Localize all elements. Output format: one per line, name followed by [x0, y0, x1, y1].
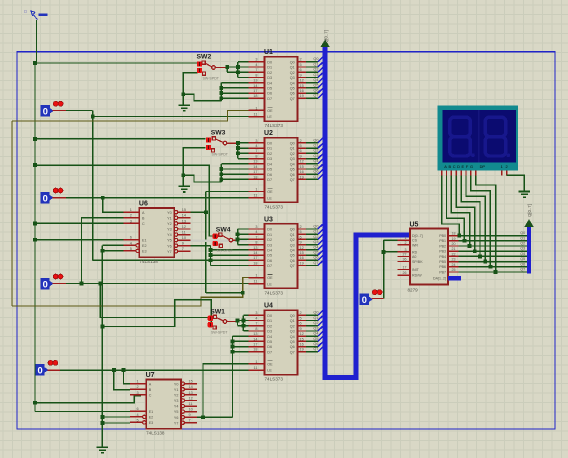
- svg-text:DP: DP: [480, 164, 486, 169]
- decoder U7 74LS138: [130, 372, 197, 436]
- svg-text:2: 2: [405, 241, 407, 245]
- svg-text:16: 16: [300, 343, 304, 347]
- logic probe P5 (logicstate 0): [360, 290, 383, 305]
- svg-text:U2: U2: [264, 130, 273, 137]
- junction at (237.6,239.4): [236, 238, 240, 242]
- svg-text:E3: E3: [142, 250, 147, 254]
- svg-text:Q0: Q0: [520, 231, 525, 235]
- switch SW1 SW-SPDT: [208, 308, 237, 334]
- svg-text:Q2: Q2: [290, 152, 295, 156]
- svg-text:Y2: Y2: [167, 222, 172, 226]
- wire tap to U1 pin LE: [93, 116, 249, 118]
- ground GND1 bottom left: [97, 447, 108, 453]
- junction display line Q4: [478, 255, 482, 259]
- svg-text:D1: D1: [267, 66, 272, 70]
- junction SW1 pole: [236, 319, 240, 323]
- junction staircase D5: [219, 86, 223, 90]
- junction at (243.4,320.5): [242, 319, 246, 323]
- svg-text:Q5: Q5: [313, 164, 318, 168]
- svg-text:3: 3: [130, 219, 132, 223]
- svg-text:Q2: Q2: [290, 324, 295, 328]
- svg-text:Q1: Q1: [313, 62, 318, 66]
- svg-text:D[0..7]: D[0..7]: [412, 234, 423, 238]
- svg-text:Q5: Q5: [290, 254, 295, 258]
- wire rail y=165 to SW4 top throw: [35, 165, 213, 236]
- svg-text:D4: D4: [267, 335, 272, 339]
- junction at (210.5,249.9): [209, 248, 213, 252]
- svg-text:6: 6: [300, 322, 302, 326]
- svg-text:Q2: Q2: [313, 235, 318, 239]
- svg-text:Q4: Q4: [290, 162, 295, 166]
- svg-text:1: 1: [255, 360, 257, 364]
- svg-text:D7: D7: [267, 350, 272, 354]
- svg-text:15: 15: [300, 337, 304, 341]
- svg-text:D7: D7: [267, 178, 272, 182]
- svg-text:D1: D1: [267, 147, 272, 151]
- svg-text:1: 1: [405, 236, 407, 240]
- svg-text:Q1: Q1: [290, 319, 295, 323]
- svg-text:19: 19: [300, 261, 304, 265]
- svg-text:11: 11: [182, 231, 186, 235]
- svg-text:12: 12: [189, 396, 193, 400]
- svg-text:SW3: SW3: [211, 130, 226, 137]
- svg-text:A0: A0: [412, 255, 416, 259]
- svg-text:D2: D2: [267, 324, 272, 328]
- svg-text:D6: D6: [267, 92, 272, 96]
- svg-text:Y7: Y7: [174, 421, 179, 425]
- wire SW3 bottom throw to ground: [183, 148, 205, 187]
- junction at (81.5,283.5): [80, 282, 84, 286]
- svg-text:8: 8: [255, 155, 257, 159]
- svg-text:6: 6: [300, 68, 302, 72]
- svg-text:Q4: Q4: [290, 81, 295, 85]
- bus pin U5 DA[1..2]: [448, 276, 461, 280]
- svg-text:D3: D3: [267, 157, 272, 161]
- svg-text:Q0: Q0: [313, 57, 318, 61]
- junction at (102.4,417): [101, 415, 105, 419]
- svg-text:Q4: Q4: [520, 252, 525, 256]
- svg-text:PB0: PB0: [439, 234, 446, 238]
- svg-text:OE: OE: [267, 109, 273, 113]
- svg-text:LE: LE: [267, 282, 272, 286]
- svg-text:8: 8: [255, 241, 257, 245]
- junction SW3 pole: [236, 141, 240, 145]
- svg-text:15: 15: [300, 251, 304, 255]
- junction at (383.6,251.9): [382, 250, 386, 254]
- svg-text:D3: D3: [267, 243, 272, 247]
- svg-text:SP/BK: SP/BK: [412, 260, 423, 264]
- svg-text:Q[0..7]: Q[0..7]: [527, 204, 532, 217]
- wire display segment lines to U5 port and bus Q: [442, 175, 527, 272]
- svg-text:Q4: Q4: [290, 335, 295, 339]
- svg-text:D3: D3: [267, 330, 272, 334]
- svg-text:Q3: Q3: [313, 326, 318, 330]
- svg-text:Q3: Q3: [520, 247, 525, 251]
- svg-text:Y0: Y0: [167, 211, 172, 215]
- svg-text:2: 2: [136, 385, 138, 389]
- svg-text:15: 15: [300, 84, 304, 88]
- svg-text:PB7: PB7: [439, 270, 446, 274]
- svg-text:8279: 8279: [408, 288, 419, 293]
- junction at (210.5,260.3): [209, 258, 213, 262]
- svg-text:19: 19: [300, 348, 304, 352]
- svg-text:Y3: Y3: [167, 228, 172, 232]
- svg-text:LE: LE: [267, 115, 272, 119]
- wire U5 CS/RD to logic probe: [384, 240, 398, 298]
- junction staircase D1: [236, 65, 240, 69]
- wire probe stub U5: [372, 298, 384, 300]
- svg-text:WR: WR: [412, 243, 418, 247]
- svg-text:D5: D5: [267, 87, 272, 91]
- svg-text:11: 11: [189, 402, 193, 406]
- svg-text:Q1: Q1: [520, 236, 525, 240]
- junction at (242.7,292.8): [241, 291, 245, 295]
- svg-text:Q1: Q1: [290, 147, 295, 151]
- svg-text:14: 14: [253, 165, 257, 169]
- bus entries Q0-Q7 with net labels: [306, 311, 323, 352]
- svg-text:2: 2: [506, 164, 508, 169]
- svg-text:9: 9: [300, 73, 302, 77]
- wire to U7 pin C: [35, 396, 141, 403]
- svg-text:Y5: Y5: [167, 239, 172, 243]
- wire to U6 pin C: [35, 222, 123, 224]
- svg-text:17: 17: [253, 343, 257, 347]
- junction at (100.4,283.5): [99, 282, 103, 286]
- svg-text:PB6: PB6: [439, 265, 446, 269]
- svg-text:D0: D0: [267, 60, 272, 64]
- svg-text:Q0: Q0: [290, 142, 295, 146]
- junction at (35,223): [33, 222, 37, 226]
- logic probe P4 (logicstate 0): [35, 360, 58, 375]
- svg-text:13: 13: [253, 246, 257, 250]
- svg-text:6: 6: [136, 407, 138, 411]
- junction at (35,403): [33, 401, 37, 405]
- svg-text:18: 18: [253, 348, 257, 352]
- svg-text:D: D: [457, 164, 460, 169]
- svg-text:Q1: Q1: [313, 144, 318, 148]
- svg-text:14: 14: [189, 385, 193, 389]
- junction at (232.5,341.4): [231, 340, 235, 344]
- svg-text:Q4: Q4: [313, 159, 318, 163]
- svg-text:8: 8: [255, 73, 257, 77]
- bus terminal arrow Q[0..7] top: [320, 39, 330, 47]
- svg-text:5: 5: [130, 247, 132, 251]
- svg-text:C: C: [453, 164, 456, 169]
- svg-text:U4: U4: [264, 303, 273, 310]
- svg-text:8: 8: [255, 327, 257, 331]
- wire SW2 bottom throw to ground: [183, 73, 197, 105]
- junction staircase D5: [219, 167, 223, 171]
- svg-text:7: 7: [255, 149, 257, 153]
- svg-text:Y0: Y0: [174, 382, 179, 386]
- svg-text:Q5: Q5: [290, 87, 295, 91]
- junction staircase D6: [219, 91, 223, 95]
- svg-text:Q2: Q2: [313, 321, 318, 325]
- svg-text:13: 13: [253, 332, 257, 336]
- svg-text:D6: D6: [267, 345, 272, 349]
- svg-text:74LS373: 74LS373: [265, 290, 284, 295]
- svg-text:Q0: Q0: [290, 228, 295, 232]
- svg-text:0: 0: [43, 193, 48, 203]
- svg-text:D0: D0: [267, 142, 272, 146]
- svg-text:2: 2: [300, 311, 302, 315]
- junction display line Q6: [489, 265, 493, 269]
- svg-text:7: 7: [255, 322, 257, 326]
- wire branch to U7 pin A: [124, 370, 131, 384]
- svg-text:E2: E2: [142, 244, 147, 248]
- junction display line Q2: [468, 244, 472, 248]
- svg-text:10: 10: [189, 408, 193, 412]
- svg-text:0: 0: [38, 366, 43, 376]
- svg-text:7: 7: [182, 247, 184, 251]
- svg-text:Y4: Y4: [167, 233, 172, 237]
- svg-text:U6: U6: [139, 201, 148, 208]
- svg-text:Q2: Q2: [290, 71, 295, 75]
- svg-text:Q5: Q5: [520, 257, 525, 261]
- svg-text:16: 16: [300, 170, 304, 174]
- svg-text:Q6: Q6: [290, 173, 295, 177]
- svg-text:Q6: Q6: [290, 92, 295, 96]
- svg-text:D4: D4: [267, 81, 272, 85]
- wire U7 Y6 to U4 data pins D4-D7: [197, 336, 249, 417]
- svg-text:Y3: Y3: [174, 399, 179, 403]
- ground GND3 under SW3: [179, 186, 190, 192]
- wire net LED4: probe to U4 LE: [60, 369, 249, 371]
- svg-text:9: 9: [300, 155, 302, 159]
- svg-text:11: 11: [254, 366, 258, 370]
- svg-text:4: 4: [136, 413, 138, 417]
- svg-text:E1: E1: [142, 238, 147, 242]
- wire SW4 bottom net to U3 data pins D4-D7: [211, 246, 249, 266]
- svg-text:PB4: PB4: [439, 255, 446, 259]
- svg-text:3: 3: [255, 58, 257, 62]
- svg-text:Q3: Q3: [313, 240, 318, 244]
- svg-text:22: 22: [452, 252, 456, 256]
- svg-text:2: 2: [130, 214, 132, 218]
- svg-text:Y4: Y4: [174, 405, 179, 409]
- svg-text:SW-SPDT: SW-SPDT: [212, 152, 229, 156]
- svg-text:Y5: Y5: [174, 410, 179, 414]
- wire ground rail x=102 (U6 E2/E3, U7 E2/E3): [102, 245, 130, 447]
- svg-text:SW-SPDT: SW-SPDT: [203, 77, 220, 81]
- svg-text:24: 24: [452, 263, 456, 267]
- wire U6 Y6 to SW4 bottom throw: [190, 245, 210, 247]
- junction staircase D7: [219, 96, 223, 100]
- svg-text:Q7: Q7: [290, 264, 295, 268]
- svg-text:D7: D7: [267, 97, 272, 101]
- junction at (237.6,234.2): [236, 232, 240, 236]
- svg-text:12: 12: [300, 332, 304, 336]
- svg-text:Q7: Q7: [313, 347, 318, 351]
- svg-text:D4: D4: [267, 162, 272, 166]
- svg-text:9: 9: [189, 413, 191, 417]
- svg-text:Y6: Y6: [174, 416, 179, 420]
- decoder U6 74LS138: [123, 201, 190, 265]
- svg-text:E: E: [461, 164, 464, 169]
- junction staircase D1: [236, 146, 240, 150]
- svg-text:E3: E3: [149, 421, 154, 425]
- svg-text:14: 14: [182, 214, 186, 218]
- logic probe P3 (logicstate 0): [40, 274, 63, 289]
- pin stub probe P1: [53, 110, 66, 112]
- svg-text:C: C: [149, 394, 152, 398]
- svg-text:3: 3: [136, 391, 138, 395]
- svg-text:OE: OE: [267, 363, 273, 367]
- svg-text:D3: D3: [267, 76, 272, 80]
- pin stub probe P2: [53, 197, 67, 199]
- svg-text:18: 18: [253, 175, 257, 179]
- junction display line Q7: [494, 270, 498, 274]
- bus entries Q0-Q7 with net labels: [306, 57, 323, 98]
- svg-text:12: 12: [182, 225, 186, 229]
- svg-text:Q3: Q3: [290, 157, 295, 161]
- junction at (102.4,326.5): [101, 325, 105, 329]
- svg-text:D1: D1: [267, 233, 272, 237]
- bus terminal arrow right: [524, 219, 534, 227]
- svg-text:17: 17: [253, 256, 257, 260]
- svg-text:5: 5: [300, 316, 302, 320]
- svg-text:Q0: Q0: [290, 60, 295, 64]
- svg-text:D6: D6: [267, 173, 272, 177]
- junction SW2 pole: [225, 65, 229, 69]
- junction at (232.5,351.8): [231, 350, 235, 354]
- logic probe P2 (logicstate 0): [40, 188, 63, 203]
- svg-text:Q6: Q6: [313, 256, 318, 260]
- svg-text:D2: D2: [267, 71, 272, 75]
- svg-text:Q4: Q4: [290, 249, 295, 253]
- wire display digit 2 to ground: [507, 175, 525, 191]
- svg-text:23: 23: [452, 258, 456, 262]
- junction at (102.7,197.7): [101, 196, 105, 200]
- svg-text:2: 2: [300, 139, 302, 143]
- svg-text:Q7: Q7: [290, 97, 295, 101]
- svg-text:5: 5: [136, 418, 138, 422]
- bus entries Q0-Q7 with net labels: [306, 224, 323, 265]
- svg-text:Q7: Q7: [313, 261, 318, 265]
- svg-text:D6: D6: [267, 259, 272, 263]
- svg-text:25: 25: [452, 268, 456, 272]
- wire SW1 pole staircase U4 D0-D3: [238, 315, 249, 331]
- svg-text:17: 17: [253, 89, 257, 93]
- wire rail to SW2 top throw: [35, 62, 197, 64]
- junction display line Q5: [483, 260, 487, 264]
- svg-text:6: 6: [300, 149, 302, 153]
- svg-text:Q6: Q6: [520, 262, 525, 266]
- svg-text:1: 1: [130, 208, 132, 212]
- junction staircase D2: [236, 70, 240, 74]
- svg-text:Q3: Q3: [290, 330, 295, 334]
- svg-text:A: A: [444, 164, 447, 169]
- svg-text:Y7: Y7: [167, 250, 172, 254]
- wire data pins D4-D7 to ground jog: [183, 164, 248, 182]
- svg-text:Q2: Q2: [520, 242, 525, 246]
- latch U3 74LS373: [249, 216, 307, 295]
- svg-text:Q6: Q6: [290, 259, 295, 263]
- wire rail from DCLOCK down left side (net CLK): [35, 20, 37, 412]
- wire SW4 pole staircase U3 D0-D3: [238, 229, 249, 245]
- svg-text:D7: D7: [267, 264, 272, 268]
- svg-text:4: 4: [255, 316, 257, 320]
- wire SW1 bottom throw to ground rail: [102, 300, 211, 327]
- svg-text:PB3: PB3: [439, 250, 446, 254]
- junction display line Q1: [463, 239, 467, 243]
- svg-text:Y1: Y1: [167, 216, 172, 220]
- svg-text:PB2: PB2: [439, 244, 446, 248]
- svg-text:11: 11: [254, 194, 258, 198]
- junction at (35,139): [33, 137, 37, 141]
- svg-text:OE: OE: [267, 190, 273, 194]
- svg-text:SW1: SW1: [210, 308, 225, 315]
- svg-text:18: 18: [452, 232, 456, 236]
- svg-text:C: C: [142, 222, 145, 226]
- junction at (92.7,116.5): [91, 115, 95, 119]
- svg-text:SW2: SW2: [197, 54, 212, 61]
- wire data pins D4-D7 to ground jog: [183, 83, 248, 101]
- latch U1 74LS373: [249, 49, 307, 128]
- svg-text:Q6: Q6: [290, 345, 295, 349]
- wire switch pole staircase D0-D3: [227, 62, 249, 78]
- junction SW4 pole: [236, 238, 240, 242]
- svg-text:1: 1: [255, 274, 257, 278]
- svg-text:21: 21: [452, 247, 456, 251]
- svg-text:Q7: Q7: [313, 94, 318, 98]
- svg-text:B: B: [448, 164, 451, 169]
- latch U4 74LS373: [249, 303, 307, 382]
- svg-text:Q3: Q3: [313, 154, 318, 158]
- svg-text:Q5: Q5: [313, 251, 318, 255]
- svg-text:74LS373: 74LS373: [265, 377, 284, 382]
- bus Q[0..7] main vertical with corner run to U5: [325, 46, 410, 377]
- svg-text:CS: CS: [412, 239, 418, 243]
- display DISP1 2-digit 7-segment: [438, 105, 518, 175]
- generator DCLOCK top left: [24, 9, 48, 20]
- junction staircase D7: [219, 178, 223, 182]
- svg-text:Q1: Q1: [290, 233, 295, 237]
- junction display line Q3: [473, 249, 477, 253]
- svg-text:RD: RD: [412, 250, 418, 254]
- svg-text:13: 13: [253, 160, 257, 164]
- svg-text:G: G: [470, 164, 473, 169]
- svg-text:12: 12: [300, 246, 304, 250]
- svg-text:Q3: Q3: [290, 243, 295, 247]
- wire net OE (olive) left vertical outside frame: [11, 121, 13, 306]
- svg-text:5: 5: [300, 230, 302, 234]
- svg-text:Q3: Q3: [313, 73, 318, 77]
- junction at (35,240): [33, 238, 37, 242]
- svg-text:16: 16: [300, 256, 304, 260]
- svg-text:74LS138: 74LS138: [146, 431, 165, 436]
- svg-text:7: 7: [255, 235, 257, 239]
- svg-text:17: 17: [253, 170, 257, 174]
- svg-text:7: 7: [189, 419, 191, 423]
- svg-text:4: 4: [255, 144, 257, 148]
- wire rail to SW3 top throw: [35, 138, 206, 140]
- bus Q[0..7] right vertical near display: [527, 227, 531, 274]
- junction at (35,165): [33, 163, 37, 167]
- svg-text:9: 9: [300, 241, 302, 245]
- svg-text:3: 3: [255, 139, 257, 143]
- svg-text:6: 6: [300, 235, 302, 239]
- svg-text:Y2: Y2: [174, 394, 179, 398]
- svg-text:2: 2: [300, 58, 302, 62]
- svg-text:Q7: Q7: [290, 350, 295, 354]
- svg-text:15: 15: [189, 380, 193, 384]
- svg-text:Q6: Q6: [313, 342, 318, 346]
- svg-text:Q6: Q6: [313, 170, 318, 174]
- wire branch to U7 pin B: [114, 370, 130, 390]
- svg-text:Q0: Q0: [313, 311, 318, 315]
- junction at (102.4,423): [101, 421, 105, 425]
